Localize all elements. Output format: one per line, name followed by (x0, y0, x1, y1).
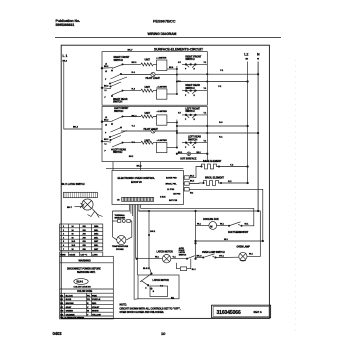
fan thermostat (228, 208, 254, 234)
svg-text:LATCH MOTOR: LATCH MOTOR (157, 251, 174, 254)
EOC pin label L1 P1D (167, 189, 175, 191)
svg-text:GRAY: GRAY (66, 306, 72, 309)
svg-text:EOC6 V8: EOC6 V8 (131, 180, 142, 184)
latch detail box (138, 275, 179, 299)
svg-text:BK-7: BK-7 (128, 49, 134, 51)
svg-text:DISCONNECT POWER BEFORE: DISCONNECT POWER BEFORE (67, 268, 101, 270)
EOC pin label BAKE P8D (166, 177, 177, 180)
EOC connector comb strip (117, 197, 154, 201)
svg-text:L 1: L 1 (63, 54, 68, 58)
wire EOC aux row (141, 207, 254, 209)
wire label R-3 (132, 88, 136, 90)
svg-text:BK-1: BK-1 (150, 231, 156, 233)
left front switch block (178, 107, 207, 121)
svg-text:1 BLK: 1 BLK (160, 197, 166, 199)
svg-text:2: 2 (63, 230, 64, 232)
svg-text:OVEN DOOR CLOSED AND UNLOCKED.: OVEN DOOR CLOSED AND UNLOCKED. (120, 311, 165, 314)
wire left front row (123, 116, 141, 118)
svg-text:7: 7 (63, 249, 64, 251)
svg-text:PROBE: PROBE (116, 249, 124, 251)
svg-text:BK-3: BK-3 (190, 176, 194, 178)
wire BK-1 into latch box (149, 259, 151, 274)
svg-text:16: 16 (72, 234, 74, 236)
svg-text:CB P8G: CB P8G (173, 194, 181, 196)
svg-text:L2: L2 (105, 71, 107, 73)
svg-text:3: 3 (63, 234, 64, 236)
svg-text:SWITCH: SWITCH (114, 59, 123, 62)
junction column RF (176, 66, 177, 94)
svg-text:UNIT: UNIT (145, 59, 151, 62)
EOC pin label BROIL P8L (166, 183, 178, 185)
svg-text:+ LIMITER: + LIMITER (156, 58, 167, 60)
header rule (55, 36, 281, 38)
door plunger latch switch body (64, 192, 98, 197)
svg-text:REV: A: REV: A (254, 310, 262, 314)
svg-text:COOLING FAN: COOLING FAN (203, 218, 219, 221)
svg-text:L2: L2 (105, 125, 107, 127)
svg-text:WARNING: WARNING (79, 258, 91, 262)
svg-text:+ LIMITER: + LIMITER (157, 87, 168, 89)
svg-text:5995388831: 5995388831 (56, 23, 75, 27)
surface elements box (left units) (102, 107, 207, 162)
svg-text:BK-2: BK-2 (73, 127, 79, 129)
wire N line (257, 62, 259, 212)
svg-text:Y-3: Y-3 (204, 140, 207, 142)
svg-text:OVEN LAMP SWITCH: OVEN LAMP SWITCH (202, 251, 225, 254)
left rear switch (rotary) (101, 136, 126, 155)
svg-text:Y-3: Y-3 (204, 88, 207, 90)
junction dot (195, 210, 197, 212)
wire EOC to fan row (139, 210, 258, 212)
header publication number (56, 19, 81, 27)
door plunger mechanism (67, 199, 103, 218)
svg-text:L1: L1 (105, 144, 107, 146)
junction latch (136, 258, 138, 260)
svg-text:ELECTRONIC OVEN CONTROL: ELECTRONIC OVEN CONTROL (118, 176, 156, 180)
EOC right connector box bake (183, 176, 196, 180)
wire surface exit row 4 (177, 132, 259, 138)
svg-text:TEMPERATURE: TEMPERATURE (112, 245, 129, 248)
wire label BK-4 (132, 115, 138, 118)
svg-text:PILOT LIGHT: PILOT LIGHT (144, 128, 159, 131)
junction N at fan row (257, 210, 259, 212)
svg-text:SERVICING UNIT.: SERVICING UNIT. (77, 272, 96, 274)
electronic oven control U1 box (112, 170, 183, 204)
svg-text:H-7: H-7 (178, 112, 181, 114)
limiter RF box (156, 58, 177, 71)
svg-text:BLUE: BLUE (66, 299, 72, 301)
wire latch detail feeds (134, 298, 138, 301)
svg-text:BK-1: BK-1 (132, 62, 138, 64)
svg-text:BL-2: BL-2 (192, 269, 196, 271)
warning box (60, 256, 114, 319)
svg-text:316045066: 316045066 (217, 310, 241, 316)
wire surface exit row 2 (177, 81, 249, 88)
svg-text:COLOR CODE NO: COLOR CODE NO (74, 287, 92, 289)
svg-text:SWITCH: SWITCH (114, 110, 123, 113)
svg-text:-750: -750 (82, 249, 86, 251)
bake element (200, 160, 249, 169)
svg-text:16: 16 (72, 237, 74, 239)
resistor right front UNIT (141, 59, 157, 66)
part number box (212, 305, 271, 318)
svg-text:-750: -750 (82, 245, 86, 247)
EOC pin label 1 BLK (160, 197, 166, 199)
wire label BK-1 vertical (150, 231, 156, 233)
wire label BK-2 (73, 127, 79, 129)
wire BK-2 surface to EOC (137, 162, 143, 171)
latch detail switch arms (140, 273, 163, 293)
svg-text:BK-4: BK-4 (132, 115, 138, 118)
junction column LF (176, 120, 177, 148)
svg-text:WIRING DIAGRAM: WIRING DIAGRAM (148, 32, 177, 36)
svg-text:BROIL P8L: BROIL P8L (166, 183, 178, 185)
svg-text:BK-2: BK-2 (129, 156, 133, 158)
wire across EOC top (106, 168, 183, 170)
right front switch (rotary) (101, 56, 130, 84)
left front switch (rotary) (101, 107, 129, 138)
EOC right connector box L1 (183, 188, 193, 195)
oven lamp (237, 211, 261, 261)
svg-text:WHITE: WHITE (92, 311, 99, 313)
left rear switch block (182, 136, 207, 149)
svg-text:BROWN: BROWN (66, 303, 74, 305)
svg-text:PINK: PINK (92, 295, 97, 297)
svg-text:BLACK: BLACK (66, 294, 74, 297)
svg-text:OR: OR (60, 314, 64, 316)
svg-text:LATCH MOTOR: LATCH MOTOR (153, 279, 170, 282)
thermal breaker (113, 214, 132, 223)
wire surface exit row 1 (177, 70, 259, 75)
svg-text:L1: L1 (105, 90, 107, 92)
svg-text:-700: -700 (82, 237, 86, 239)
wire pilot row (121, 74, 151, 76)
svg-text:GAGE: GAGE (69, 253, 75, 256)
wire surface exit row 3 (177, 122, 249, 127)
wire right front unit row (123, 63, 141, 65)
svg-text:BK-2: BK-2 (137, 165, 143, 167)
svg-text:GREEN: GREEN (66, 311, 74, 313)
svg-text:HOT SURFACE: HOT SURFACE (180, 157, 196, 160)
limiter LR box (157, 140, 178, 153)
svg-text:+ LIMITER: + LIMITER (157, 140, 168, 142)
svg-text:SWITCH: SWITCH (113, 151, 122, 154)
svg-text:YELLOW: YELLOW (92, 314, 101, 316)
wire left rear row (123, 142, 141, 144)
pilot light right (146, 72, 177, 80)
wire label BK-7 top (128, 49, 134, 51)
svg-text:1: 1 (63, 226, 64, 228)
wire BLK-1 label (143, 268, 150, 270)
svg-text:PURPLE: PURPLE (92, 299, 101, 301)
svg-text:SWITCH: SWITCH (185, 58, 194, 61)
svg-text:-700: -700 (82, 241, 86, 243)
EOC pin label BAT P1E (169, 199, 178, 202)
resistor right rear UNIT (141, 86, 157, 92)
svg-text:M: M (210, 224, 212, 228)
svg-text:SWITCH: SWITCH (185, 87, 194, 90)
svg-text:SWITCH: SWITCH (185, 110, 194, 113)
wire W2 run to right (189, 189, 263, 241)
resistor left rear UNIT (141, 140, 157, 145)
wire label BK-2 inner (129, 156, 133, 158)
broil element (202, 177, 249, 186)
wire label R-1 (132, 72, 136, 74)
svg-text:16.5: 16.5 (72, 245, 76, 247)
svg-text:ORANGE: ORANGE (66, 313, 76, 316)
EOC pin label CB P8G (173, 194, 181, 196)
svg-text:W-2: W-2 (190, 192, 193, 194)
svg-text:UNIT: UNIT (145, 86, 151, 89)
svg-text:VIOLET: VIOLET (92, 307, 100, 309)
svg-text:BK-2: BK-2 (104, 139, 108, 141)
svg-text:BK-7: BK-7 (67, 207, 73, 209)
wire lamp feed row (195, 239, 264, 242)
node N label (257, 53, 260, 61)
svg-text:UNIT: UNIT (145, 112, 151, 115)
svg-text:18: 18 (72, 249, 74, 251)
svg-text:-700: -700 (82, 226, 86, 228)
wire lamp circuit left vertical (195, 211, 197, 259)
svg-text:+ LIMITER: + LIMITER (157, 111, 168, 113)
svg-text:BK-1: BK-1 (178, 152, 182, 154)
wire label Y-3 (132, 142, 136, 144)
right rear switch (rotary) (101, 82, 128, 104)
svg-text:BAT P1E: BAT P1E (169, 199, 178, 202)
svg-text:OVEN LAMP: OVEN LAMP (237, 245, 251, 248)
cooling fan motor (196, 218, 228, 229)
svg-text:BK-3: BK-3 (190, 180, 194, 182)
wire broil feed (189, 182, 201, 185)
footer page number (161, 331, 166, 336)
surface elements circuit title (154, 48, 204, 52)
wire name oval (74, 279, 92, 289)
EOC comb drop wires (129, 205, 140, 300)
surface elements box (right units) (102, 52, 207, 106)
svg-text:BLK-1: BLK-1 (143, 268, 150, 270)
svg-text:SWITCH: SWITCH (179, 254, 187, 256)
svg-text:105A: 105A (94, 233, 99, 236)
svg-text:-700: -700 (82, 234, 86, 236)
header title WIRING DIAGRAM (148, 32, 177, 36)
svg-text:BLN-1: BLN-1 (77, 282, 84, 284)
svg-text:FES367BCC: FES367BCC (153, 19, 176, 24)
wire L1 drop (64, 62, 102, 129)
EOC right connector box broil (183, 180, 194, 185)
node L1 label (63, 54, 68, 63)
header model number (153, 19, 176, 24)
svg-text:Y-2: Y-2 (204, 112, 207, 114)
svg-text:* M. ALTERNATE WIRING: * M. ALTERNATE WIRING (60, 316, 84, 319)
wire right rear row (123, 90, 141, 92)
svg-text:BK-1: BK-1 (197, 152, 201, 154)
svg-text:SWITCH: SWITCH (113, 101, 122, 104)
right rear switch block (178, 81, 207, 97)
svg-text:A.WG: A.WG (92, 253, 98, 256)
wire label BK-1 (132, 62, 138, 64)
svg-text:DR. P. LATCH SWITCH: DR. P. LATCH SWITCH (61, 183, 85, 186)
svg-text:BAKE P8D: BAKE P8D (166, 177, 177, 180)
NOTE text (120, 304, 181, 315)
hot surface indicator (176, 152, 208, 161)
svg-text:BK-2: BK-2 (104, 86, 108, 88)
svg-text:BK-2: BK-2 (104, 120, 108, 122)
svg-text:BROIL ELEMENT: BROIL ELEMENT (205, 177, 224, 180)
svg-text:GN: GN (60, 311, 64, 313)
svg-text:SWITCH: SWITCH (188, 138, 197, 141)
pilot light left (144, 128, 177, 133)
svg-text:PILOT LIGHT: PILOT LIGHT (146, 77, 161, 80)
svg-text:BAKE ELEMENT: BAKE ELEMENT (203, 160, 222, 163)
svg-text:16.5: 16.5 (72, 241, 76, 243)
oven lamp switch (196, 251, 239, 258)
latch motor (137, 251, 181, 263)
svg-text:Y-2: Y-2 (204, 62, 207, 64)
svg-text:CIRCUIT SHOWN WITH ALL CONTROL: CIRCUIT SHOWN WITH ALL CONTROLS SET TO "… (120, 308, 181, 311)
right front switch block (178, 55, 207, 70)
svg-text:BK-2: BK-2 (104, 66, 108, 68)
wire gauge table (60, 224, 103, 251)
svg-text:FAN THERMOSTAT: FAN THERMOSTAT (228, 231, 249, 234)
electronic oven control label (118, 176, 156, 184)
capacitor box C8 (177, 259, 196, 271)
svg-text:6: 6 (63, 245, 64, 247)
svg-text:H-7: H-7 (178, 62, 181, 64)
svg-text:Publication No.: Publication No. (56, 19, 81, 23)
svg-text:L2: L2 (244, 53, 248, 57)
wire surface box bottom feed (112, 162, 114, 171)
wire pilot row left (121, 130, 151, 132)
svg-text:SURFACE-ELEMENTS-CIRCUIT: SURFACE-ELEMENTS-CIRCUIT (154, 48, 204, 52)
svg-text:105A: 105A (94, 225, 99, 228)
svg-text:L1 P1D: L1 P1D (167, 189, 175, 191)
svg-text:5: 5 (63, 241, 64, 243)
wire L2 line (247, 62, 249, 184)
svg-text:BK-8: BK-8 (169, 67, 173, 69)
node L2 label (244, 53, 248, 61)
svg-text:W: W (87, 311, 89, 313)
svg-text:RED: RED (92, 303, 97, 305)
resistor left front UNIT (141, 112, 157, 118)
svg-text:C-1: C-1 (160, 285, 163, 287)
color code table (60, 289, 114, 319)
door plunger latch switch label (61, 183, 85, 186)
svg-text:W-1: W-1 (171, 297, 174, 299)
svg-text:NOTE:: NOTE: (120, 304, 127, 307)
limiter RR box (157, 87, 178, 100)
auto door latch switch (179, 242, 197, 259)
svg-text:GY-1: GY-1 (219, 255, 225, 257)
wire gauge table header row (60, 252, 103, 256)
wire comb bottom ties (113, 211, 149, 259)
svg-text:CAP °C: CAP °C (80, 253, 87, 256)
temperature probe (112, 221, 132, 251)
wire latch drop A (136, 258, 137, 260)
wire label Y-4 (132, 125, 136, 128)
limiter LF box (157, 111, 177, 125)
svg-text:BK-3: BK-3 (197, 255, 203, 257)
svg-text:THERMAL: THERMAL (115, 214, 126, 217)
svg-text:-700: -700 (82, 230, 86, 232)
junction BK-1 top (148, 210, 149, 211)
svg-text:0403: 0403 (53, 331, 63, 336)
footer date code (53, 331, 63, 336)
wire bake feed (196, 167, 200, 178)
main border box (61, 45, 269, 318)
